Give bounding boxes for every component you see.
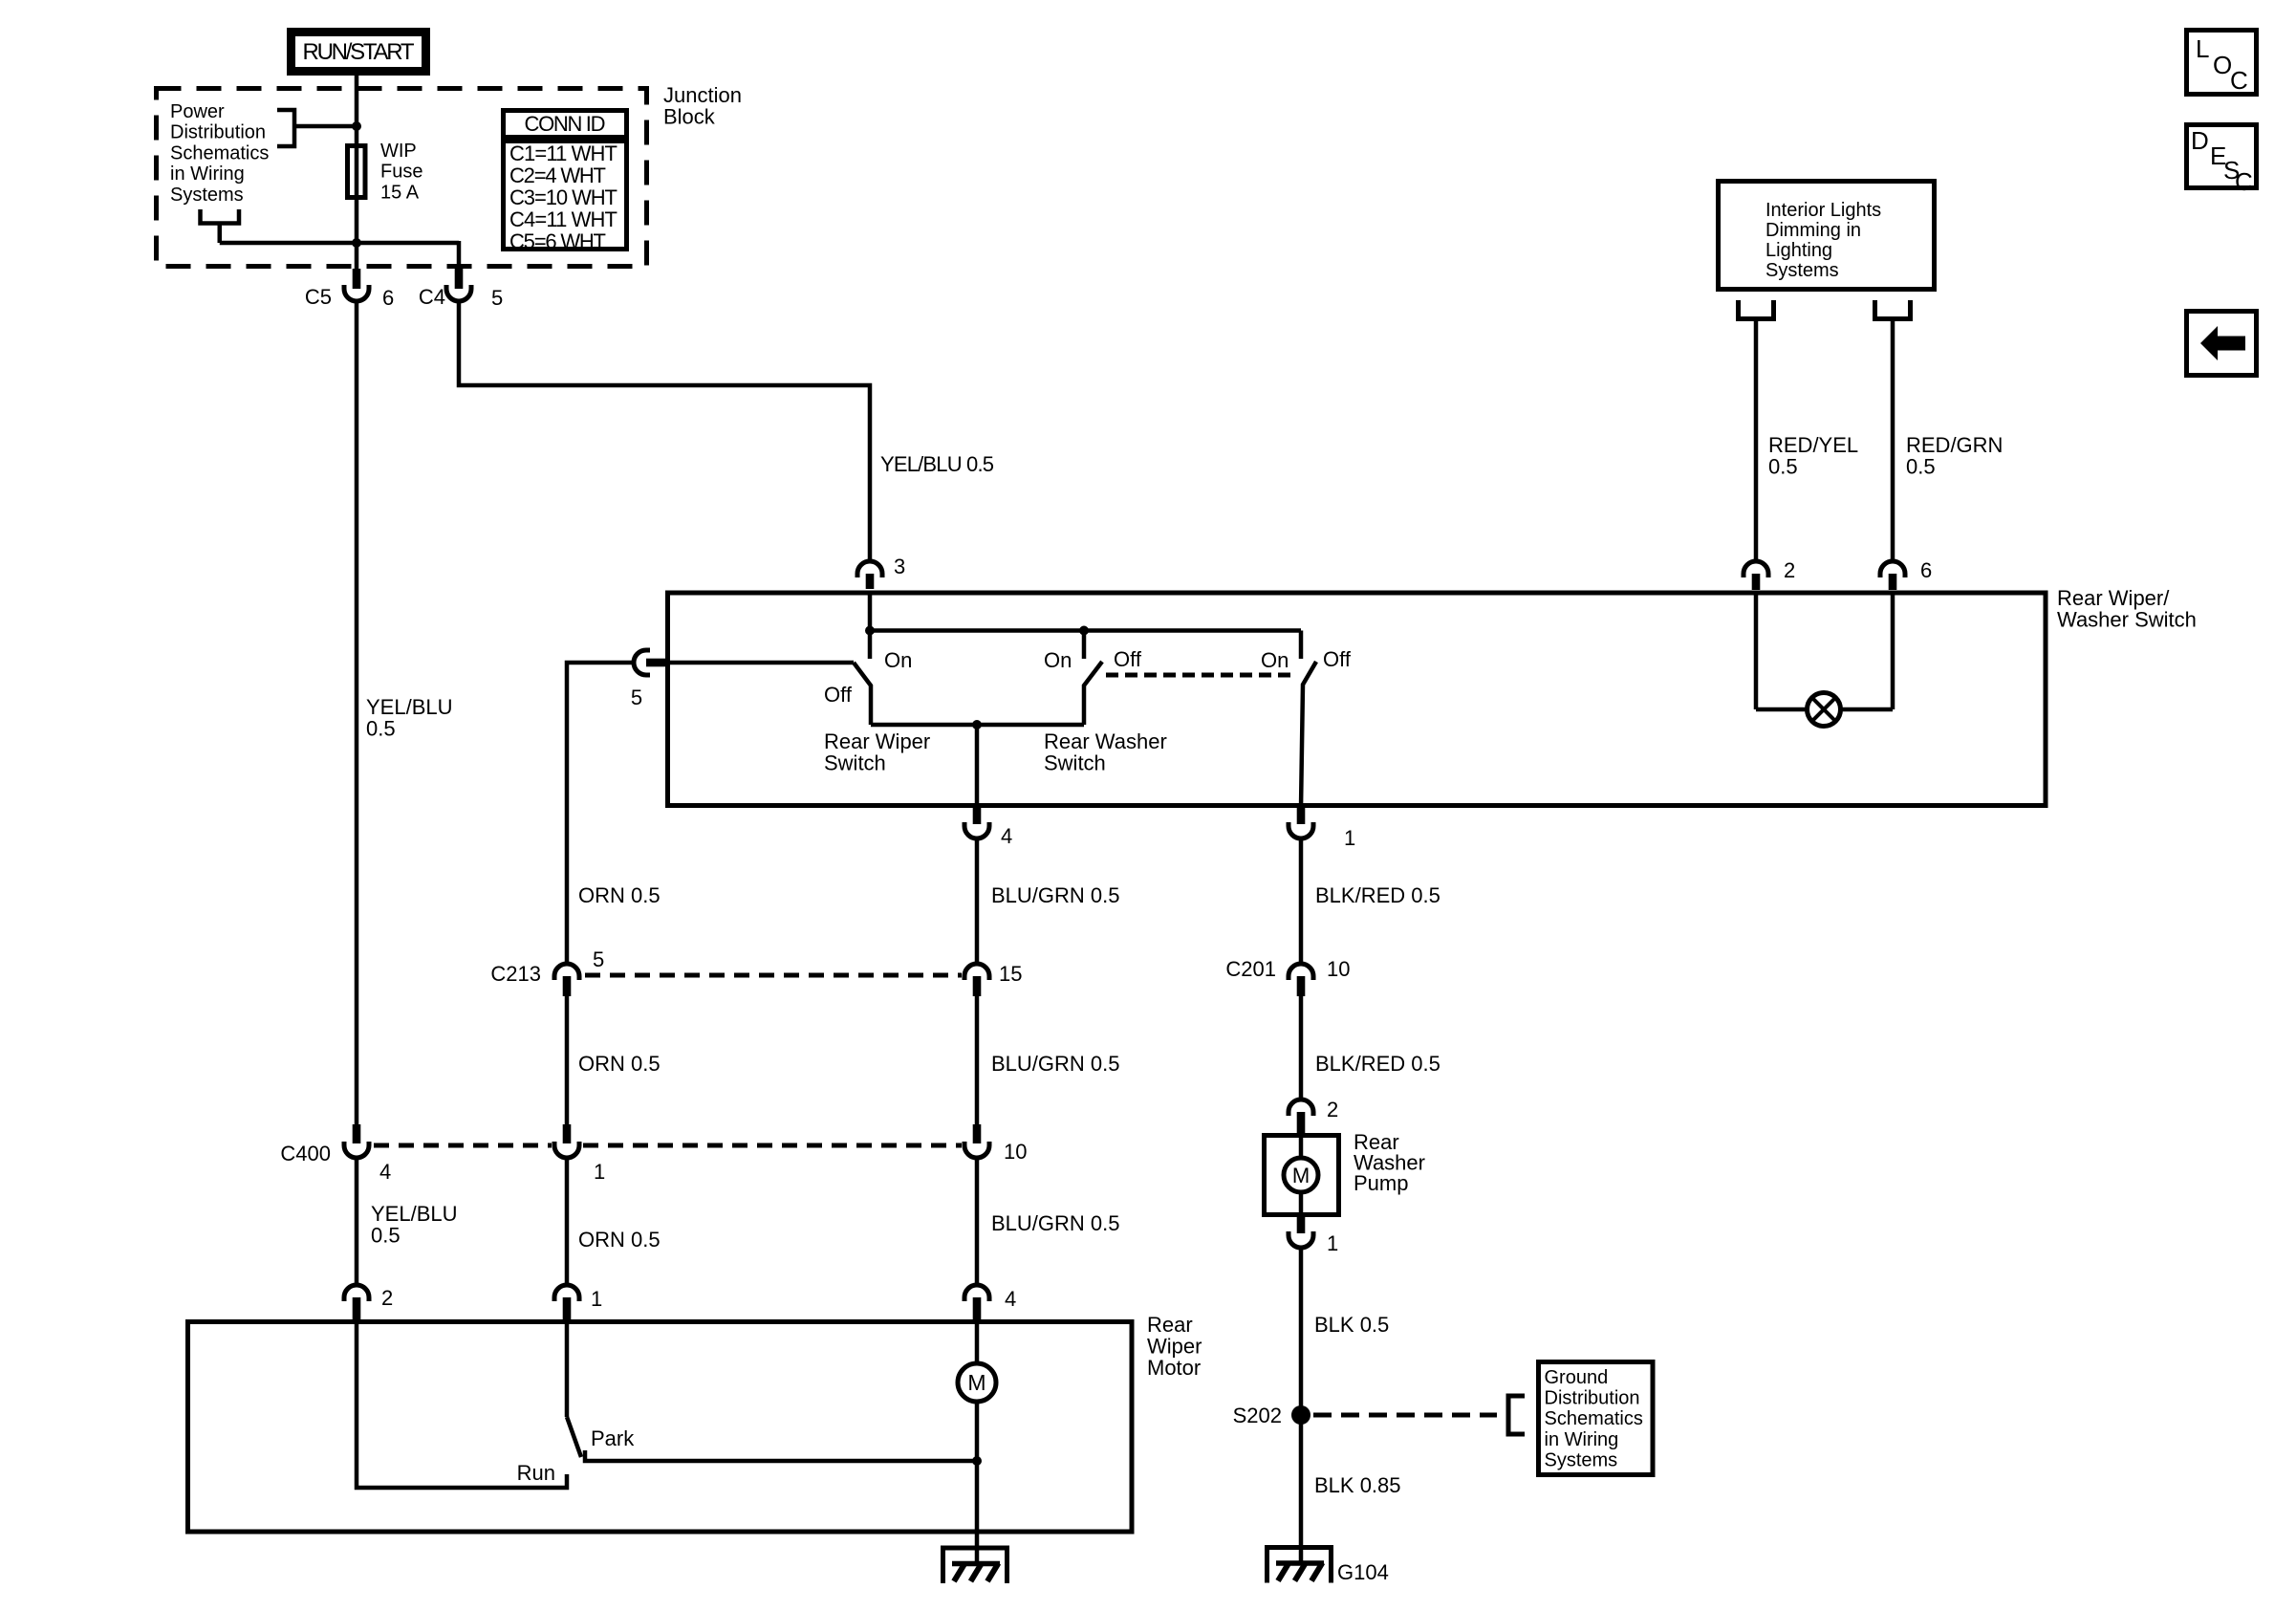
reference box: Ground Distribution Schematics in Wiring Systems bbox=[1539, 1362, 1654, 1475]
svg-text:6: 6 bbox=[1920, 558, 1932, 582]
svg-text:4: 4 bbox=[1005, 1287, 1016, 1311]
svg-text:Rear Wiper/: Rear Wiper/ bbox=[2057, 586, 2170, 610]
svg-text:Off: Off bbox=[1114, 647, 1142, 671]
svg-text:1: 1 bbox=[594, 1160, 605, 1184]
svg-text:M: M bbox=[1292, 1164, 1310, 1187]
connector pin 6 arc at switch bbox=[1880, 561, 1905, 577]
wire: run contact from motor pin 2 bbox=[357, 1321, 567, 1488]
connector pin 4 arc bbox=[964, 822, 989, 838]
switch blade: park/run selector bbox=[567, 1417, 581, 1457]
wire: wiper switch output line bbox=[871, 723, 1084, 728]
svg-text:Off: Off bbox=[824, 683, 853, 707]
svg-text:CONN ID: CONN ID bbox=[525, 112, 606, 136]
connector pin 1 arc bbox=[1289, 822, 1313, 838]
connector C213 pin 5 arc bbox=[554, 964, 579, 980]
svg-text:15 A: 15 A bbox=[380, 182, 420, 203]
svg-text:BLK 0.85: BLK 0.85 bbox=[1314, 1473, 1401, 1497]
connector pin 5 stub bbox=[646, 659, 665, 667]
svg-text:in Wiring: in Wiring bbox=[1545, 1429, 1619, 1450]
svg-text:in Wiring: in Wiring bbox=[170, 163, 245, 185]
svg-text:Systems: Systems bbox=[1765, 260, 1839, 281]
svg-text:Distribution: Distribution bbox=[1545, 1388, 1640, 1409]
connector pump pin 2 stub bbox=[1297, 1112, 1306, 1133]
svg-text:C5=6 WHT: C5=6 WHT bbox=[509, 229, 606, 253]
connector pin 4 stub bbox=[973, 808, 982, 824]
svg-text:5: 5 bbox=[593, 947, 604, 971]
svg-text:Junction: Junction bbox=[663, 83, 742, 107]
component box: Rear Wiper Motor bbox=[188, 1322, 1133, 1533]
svg-text:1: 1 bbox=[591, 1287, 602, 1311]
connector pin 6 stub bbox=[1889, 574, 1897, 590]
svg-text:C4=11 WHT: C4=11 WHT bbox=[509, 207, 617, 231]
svg-text:YEL/BLU 0.5: YEL/BLU 0.5 bbox=[880, 452, 994, 476]
junction dot at motor lead bbox=[972, 1456, 982, 1466]
connector C201 stub bbox=[1297, 976, 1306, 996]
connector C5 stub bbox=[353, 269, 361, 289]
wire: horizontal feed to C4 branch bbox=[220, 241, 459, 246]
wire: motor pin 4 to motor bbox=[975, 1321, 980, 1365]
connector motor pin 1 arc bbox=[554, 1285, 579, 1301]
svg-text:2: 2 bbox=[381, 1286, 393, 1310]
svg-text:Switch: Switch bbox=[824, 751, 886, 775]
connector motor pin 1 stub bbox=[563, 1297, 572, 1319]
svg-text:Rear: Rear bbox=[1147, 1313, 1193, 1337]
wire ORN: C213 to C400 row bbox=[565, 996, 570, 1124]
svg-text:10: 10 bbox=[1327, 957, 1350, 981]
svg-text:1: 1 bbox=[1344, 826, 1355, 850]
svg-text:5: 5 bbox=[631, 686, 642, 709]
svg-text:0.5: 0.5 bbox=[1768, 455, 1798, 479]
svg-text:WIP: WIP bbox=[380, 141, 417, 162]
junction dot at fuse feed bbox=[352, 121, 361, 131]
wire BLK/RED: C201 to washer pump bbox=[1299, 996, 1304, 1099]
svg-text:0.5: 0.5 bbox=[366, 717, 396, 741]
connector pin 2 arc at switch bbox=[1744, 561, 1768, 577]
junction dot pin3 bus bbox=[865, 626, 875, 636]
wire: lamp right lead bbox=[1841, 708, 1893, 712]
svg-text:Ground: Ground bbox=[1545, 1367, 1609, 1388]
connector motor pin 4 stub bbox=[973, 1297, 982, 1319]
connector C5 arc bbox=[344, 285, 369, 301]
wire: lamp left lead bbox=[1756, 708, 1807, 712]
bracket: power distribution reference tap bbox=[277, 110, 294, 146]
wire BLU/GRN: to motor pin 4 bbox=[975, 1159, 980, 1286]
dashed connector line C400 left segment bbox=[374, 1143, 552, 1148]
wire YEL/BLU: C5 down to C400 bbox=[355, 302, 359, 1125]
svg-text:6: 6 bbox=[382, 286, 394, 310]
svg-text:BLK/RED 0.5: BLK/RED 0.5 bbox=[1315, 883, 1440, 907]
svg-text:RED/GRN: RED/GRN bbox=[1906, 433, 2003, 457]
svg-text:Off: Off bbox=[1323, 647, 1352, 671]
junction dot to pin 4 bbox=[972, 720, 982, 729]
svg-text:RED/YEL: RED/YEL bbox=[1768, 433, 1858, 457]
svg-text:On: On bbox=[884, 648, 912, 672]
svg-text:10: 10 bbox=[1004, 1140, 1027, 1164]
svg-text:Rear Washer: Rear Washer bbox=[1044, 729, 1167, 753]
connector pin 3 stub bbox=[866, 574, 875, 589]
svg-text:BLU/GRN 0.5: BLU/GRN 0.5 bbox=[991, 1052, 1120, 1076]
svg-text:Block: Block bbox=[663, 105, 716, 129]
svg-text:On: On bbox=[1261, 648, 1289, 672]
wire RED/GRN: interior lights to switch pin 6 bbox=[1891, 319, 1895, 563]
contact stub On (rear washer) bbox=[1082, 631, 1087, 660]
component box: Rear Wiper/Washer Switch bbox=[668, 593, 2047, 806]
wire BLU/GRN: C213 to C400 row bbox=[975, 996, 980, 1124]
svg-text:BLU/GRN 0.5: BLU/GRN 0.5 bbox=[991, 883, 1120, 907]
svg-text:ORN 0.5: ORN 0.5 bbox=[578, 883, 661, 907]
connector pin 1 stub (ORN at C400 row) bbox=[563, 1124, 572, 1143]
svg-text:Fuse: Fuse bbox=[380, 162, 422, 183]
svg-text:Rear Wiper: Rear Wiper bbox=[824, 729, 930, 753]
contact stub On (lamp switch) bbox=[1299, 631, 1304, 660]
svg-text:3: 3 bbox=[894, 555, 905, 578]
junction dot on C4 feed at fuse wire bbox=[352, 238, 361, 248]
connector C4 arc bbox=[446, 285, 471, 301]
junction dot washer On contact bbox=[1079, 626, 1089, 636]
dashed connector line C213 bbox=[585, 973, 962, 978]
svg-text:C1=11 WHT: C1=11 WHT bbox=[509, 142, 617, 165]
svg-text:2: 2 bbox=[1327, 1098, 1338, 1121]
table CONN ID bbox=[504, 111, 627, 250]
svg-text:C: C bbox=[2230, 66, 2248, 95]
svg-text:G104: G104 bbox=[1337, 1560, 1389, 1584]
svg-text:1: 1 bbox=[1327, 1231, 1338, 1255]
wire: reference bracket to fuse wire bbox=[294, 124, 357, 129]
wire: bracket stem down to C4 feed line bbox=[218, 224, 223, 244]
svg-text:5: 5 bbox=[491, 286, 503, 310]
connector pin 10 arc (BLU/GRN) bbox=[964, 1142, 989, 1158]
svg-text:BLK/RED 0.5: BLK/RED 0.5 bbox=[1315, 1052, 1440, 1076]
svg-text:Dimming in: Dimming in bbox=[1765, 220, 1861, 241]
connector pin 1 arc (ORN at C400 row) bbox=[554, 1142, 579, 1158]
wire: internal supply bus bbox=[870, 628, 1301, 633]
park contact and line to motor bbox=[585, 1450, 977, 1461]
wire BLK 0.85: S202 to ground G104 bbox=[1299, 1415, 1304, 1562]
svg-text:0.5: 0.5 bbox=[371, 1224, 401, 1248]
connector C400 stub bbox=[353, 1124, 361, 1143]
dashed connector line C400 right segment bbox=[583, 1143, 962, 1148]
svg-text:C3=10 WHT: C3=10 WHT bbox=[509, 185, 617, 209]
wire ORN: switch pin5 corner down to C213 bbox=[567, 663, 634, 962]
connector C213 pin 15 stub bbox=[973, 976, 982, 996]
connector pump pin 1 arc bbox=[1289, 1231, 1313, 1248]
svg-text:C4: C4 bbox=[419, 285, 445, 309]
svg-text:BLU/GRN 0.5: BLU/GRN 0.5 bbox=[991, 1211, 1120, 1235]
bracket under Systems text (schematic continuation) bbox=[201, 209, 240, 224]
component box: Rear Washer Pump bbox=[1265, 1136, 1339, 1215]
wire: pump motor to pin 1 bbox=[1299, 1191, 1304, 1217]
svg-text:BLK 0.5: BLK 0.5 bbox=[1314, 1313, 1389, 1337]
wire BLU/GRN: pin 4 down to C213 pin 15 bbox=[975, 839, 980, 963]
wire: motor pin 1 into park switch bbox=[565, 1321, 570, 1417]
svg-text:Schematics: Schematics bbox=[1545, 1408, 1643, 1429]
svg-text:Wiper: Wiper bbox=[1147, 1335, 1202, 1359]
switch blade: rear wiper switch bbox=[854, 663, 871, 725]
connector motor pin 4 arc bbox=[964, 1285, 989, 1301]
icon box back-arrow bbox=[2187, 312, 2257, 376]
wire: pin 3 into switch bbox=[868, 593, 873, 631]
wire BLK: pump to splice S202 bbox=[1299, 1249, 1304, 1416]
wire: pin 5 to wiper switch pivot bbox=[665, 661, 854, 665]
connector pin 2 stub bbox=[1752, 574, 1761, 590]
svg-text:0.5: 0.5 bbox=[1906, 455, 1936, 479]
svg-text:C: C bbox=[2235, 167, 2253, 196]
fuse F: WIP Fuse 15 A bbox=[348, 146, 366, 198]
svg-text:C2=4 WHT: C2=4 WHT bbox=[509, 163, 606, 187]
contact stub On (rear wiper) bbox=[868, 631, 873, 660]
motor M: rear wiper motor bbox=[958, 1363, 996, 1402]
svg-text:L: L bbox=[2196, 34, 2209, 63]
svg-text:Run: Run bbox=[517, 1461, 555, 1485]
svg-text:ORN 0.5: ORN 0.5 bbox=[578, 1052, 661, 1076]
pin bracket left under interior lights box bbox=[1739, 300, 1774, 319]
switch blade: rear washer switch bbox=[1084, 662, 1102, 725]
svg-text:Washer Switch: Washer Switch bbox=[2057, 608, 2197, 632]
ground symbol G104 bbox=[1267, 1548, 1332, 1583]
icon box DESC bbox=[2187, 125, 2257, 188]
svg-text:C201: C201 bbox=[1225, 957, 1276, 981]
svg-text:15: 15 bbox=[999, 962, 1022, 986]
wire: pin 2 into lamp circuit bbox=[1754, 593, 1759, 709]
connector motor pin 2 arc bbox=[344, 1285, 369, 1301]
connector pin 3 arc at switch bbox=[857, 561, 882, 577]
wire: motor to ground bbox=[975, 1400, 980, 1565]
svg-text:C400: C400 bbox=[280, 1142, 331, 1165]
bracket: ground distribution reference bbox=[1508, 1396, 1525, 1434]
svg-text:M: M bbox=[967, 1370, 986, 1395]
switch blade: lamp switch bbox=[1301, 662, 1316, 808]
mechanical linkage dashed line bbox=[1106, 673, 1290, 678]
ground symbol at rear wiper motor bbox=[943, 1548, 1007, 1583]
svg-text:4: 4 bbox=[379, 1160, 391, 1184]
svg-text:On: On bbox=[1044, 648, 1072, 672]
svg-text:Power: Power bbox=[170, 101, 225, 122]
wire YEL/BLU: C4 down, right, down to switch pin 3 bbox=[459, 302, 870, 562]
svg-text:Systems: Systems bbox=[1545, 1449, 1618, 1470]
wire: RUN/START down through WIP fuse to connector C5 bbox=[355, 71, 359, 271]
svg-text:RUN/START: RUN/START bbox=[303, 39, 415, 65]
svg-text:Pump: Pump bbox=[1354, 1171, 1408, 1195]
pin bracket right under interior lights box bbox=[1875, 300, 1911, 319]
svg-text:YEL/BLU: YEL/BLU bbox=[371, 1202, 458, 1226]
svg-text:4: 4 bbox=[1001, 824, 1012, 848]
svg-text:S202: S202 bbox=[1233, 1404, 1282, 1427]
svg-text:D: D bbox=[2191, 126, 2209, 155]
svg-text:C5: C5 bbox=[305, 285, 332, 309]
wire YEL/BLU: C400 to motor pin 2 bbox=[355, 1159, 359, 1286]
svg-text:Motor: Motor bbox=[1147, 1356, 1201, 1380]
connector pin 10 stub (BLU/GRN) bbox=[973, 1124, 982, 1143]
svg-text:Schematics: Schematics bbox=[170, 142, 269, 163]
connector C201 arc bbox=[1289, 964, 1313, 980]
svg-text:Systems: Systems bbox=[170, 185, 244, 206]
connector motor pin 2 stub bbox=[353, 1297, 361, 1319]
wire ORN: to motor pin 1 bbox=[565, 1159, 570, 1286]
power feed box RUN/START bbox=[292, 33, 426, 72]
svg-text:Interior Lights: Interior Lights bbox=[1765, 200, 1881, 221]
svg-text:Switch: Switch bbox=[1044, 751, 1106, 775]
wire: C4 branch down to junction block edge bbox=[457, 241, 462, 271]
wire: pin 6 into lamp circuit bbox=[1891, 593, 1895, 709]
component box: Interior Lights Dimming in Lighting Systems bbox=[1719, 182, 1935, 290]
wire BLK/RED: pin 1 down to C201 bbox=[1299, 839, 1304, 963]
connector C213 pin 5 stub bbox=[563, 976, 572, 996]
lamp: illumination bulb bbox=[1808, 693, 1841, 727]
splice S202 bbox=[1291, 1405, 1310, 1425]
connector pump pin 2 arc bbox=[1289, 1099, 1313, 1116]
svg-text:Distribution: Distribution bbox=[170, 122, 266, 143]
wire: pump pin 2 to motor symbol bbox=[1299, 1133, 1304, 1159]
connector pin 1 stub bbox=[1297, 808, 1306, 824]
svg-text:YEL/BLU: YEL/BLU bbox=[366, 695, 453, 719]
svg-text:Park: Park bbox=[591, 1426, 635, 1450]
motor M: rear washer pump bbox=[1284, 1158, 1318, 1192]
svg-text:Lighting: Lighting bbox=[1765, 240, 1832, 261]
connector C213 pin 15 arc bbox=[964, 964, 989, 980]
svg-text:C213: C213 bbox=[490, 962, 541, 986]
dashed line: S202 to ground distribution reference bbox=[1313, 1413, 1497, 1418]
wire RED/YEL: interior lights to switch pin 2 bbox=[1754, 319, 1759, 563]
connector C4 stub bbox=[455, 269, 464, 289]
connector pump pin 1 stub bbox=[1297, 1217, 1306, 1233]
svg-text:ORN 0.5: ORN 0.5 bbox=[578, 1228, 661, 1252]
wire: wiper output down to pin 4 bbox=[975, 725, 980, 808]
connector pin 5 arc at switch left bbox=[634, 650, 650, 675]
icon box LOC bbox=[2187, 31, 2257, 95]
junction block dashed outline bbox=[157, 89, 647, 267]
connector C400 arc bbox=[344, 1142, 369, 1158]
svg-text:2: 2 bbox=[1784, 558, 1795, 582]
